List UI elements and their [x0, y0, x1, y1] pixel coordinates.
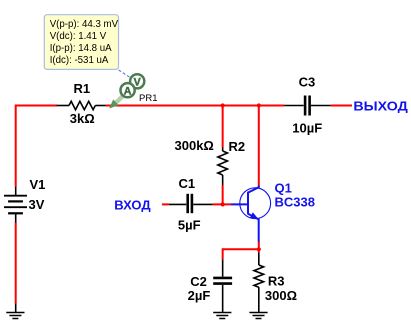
svg-text:V1: V1	[30, 177, 46, 192]
svg-text:V(p-p): 44.3 mV: V(p-p): 44.3 mV	[50, 19, 119, 30]
svg-text:ВЫХОД: ВЫХОД	[353, 99, 408, 114]
svg-text:300Ω: 300Ω	[265, 288, 297, 303]
svg-text:R2: R2	[229, 139, 246, 154]
svg-text:PR1: PR1	[139, 93, 157, 104]
svg-text:C3: C3	[299, 75, 316, 90]
svg-text:3kΩ: 3kΩ	[70, 111, 95, 126]
svg-text:5µF: 5µF	[178, 217, 201, 232]
svg-text:BC338: BC338	[275, 195, 315, 210]
svg-text:C1: C1	[179, 176, 196, 191]
svg-text:I(p-p): 14.8 uA: I(p-p): 14.8 uA	[50, 43, 112, 54]
svg-text:I(dc): -531 uA: I(dc): -531 uA	[50, 55, 109, 66]
svg-text:2µF: 2µF	[188, 288, 211, 303]
svg-text:R3: R3	[268, 274, 285, 289]
svg-text:300kΩ: 300kΩ	[175, 138, 214, 153]
svg-text:A: A	[124, 85, 132, 97]
svg-text:V(dc): 1.41 V: V(dc): 1.41 V	[50, 31, 107, 42]
svg-text:3V: 3V	[29, 197, 45, 212]
svg-text:ВХОД: ВХОД	[114, 197, 151, 212]
svg-text:R1: R1	[74, 81, 91, 96]
svg-text:10µF: 10µF	[292, 120, 322, 135]
svg-text:Q1: Q1	[275, 181, 292, 196]
